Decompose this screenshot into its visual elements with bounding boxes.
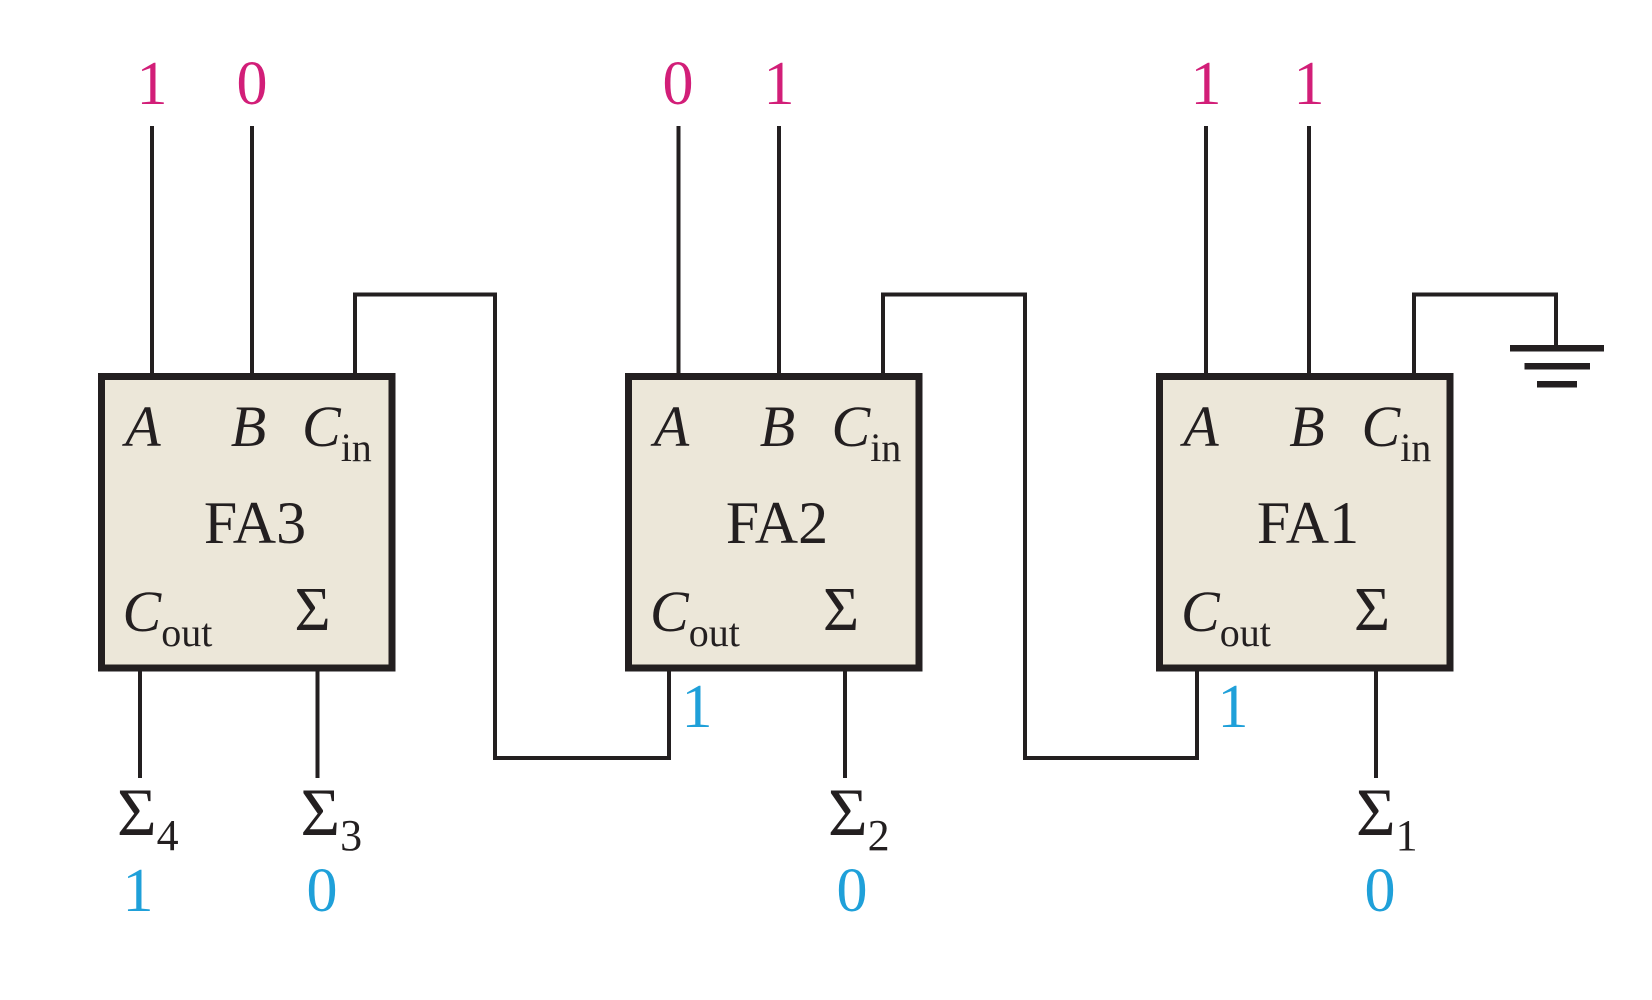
FA2 box body <box>629 377 920 669</box>
svg-text:1: 1 <box>137 50 168 118</box>
svg-text:1: 1 <box>682 673 713 741</box>
full adder FA1 <box>1160 377 1451 669</box>
svg-text:1: 1 <box>1294 50 1325 118</box>
svg-text:1: 1 <box>1218 673 1249 741</box>
svg-text:1: 1 <box>123 857 154 925</box>
svg-text:A: A <box>650 394 690 459</box>
wire B input FA2 <box>777 126 781 373</box>
svg-text:0: 0 <box>1365 857 1396 925</box>
svg-text:FA2: FA2 <box>726 490 828 556</box>
svg-text:B: B <box>760 394 795 459</box>
wire A input FA2 <box>677 126 681 373</box>
svg-text:A: A <box>1179 394 1219 459</box>
wire B input FA3 <box>250 126 254 373</box>
svg-text:Σ: Σ <box>823 576 859 644</box>
wire B input FA1 <box>1307 126 1311 373</box>
wire Sigma FA1 <box>1374 671 1378 778</box>
wire Sigma FA3 <box>316 671 320 778</box>
svg-text:1: 1 <box>764 50 795 118</box>
ground <box>1510 345 1604 388</box>
wire Cin FA3 to Cout FA2 <box>355 295 669 759</box>
wire A input FA3 <box>150 126 154 373</box>
wire Cin FA1 to ground <box>1414 295 1556 374</box>
full adder FA3 <box>102 377 393 669</box>
svg-text:FA1: FA1 <box>1257 490 1359 556</box>
svg-text:B: B <box>231 394 266 459</box>
svg-text:FA3: FA3 <box>204 490 306 556</box>
wire A input FA1 <box>1204 126 1208 373</box>
svg-text:0: 0 <box>307 857 338 925</box>
wire Cin FA2 to Cout FA1 <box>883 295 1197 759</box>
svg-text:Σ: Σ <box>1354 576 1390 644</box>
svg-text:0: 0 <box>237 50 268 118</box>
svg-text:1: 1 <box>1191 50 1222 118</box>
FA1 box body <box>1160 377 1451 669</box>
full adder FA2 <box>629 377 920 669</box>
svg-text:Σ: Σ <box>294 576 330 644</box>
svg-text:B: B <box>1289 394 1324 459</box>
wire Sigma FA2 <box>843 671 847 778</box>
svg-text:0: 0 <box>837 857 868 925</box>
svg-text:A: A <box>121 394 161 459</box>
FA3 box body <box>102 377 393 669</box>
svg-text:0: 0 <box>663 50 694 118</box>
wire Cout FA3 <box>138 671 142 778</box>
